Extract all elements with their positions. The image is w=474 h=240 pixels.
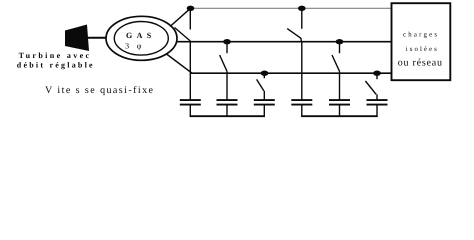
switch S1 bbox=[175, 8, 191, 41]
wire column C6 bbox=[376, 94, 378, 99]
node J2 bbox=[298, 6, 306, 11]
capacitor C4 bbox=[291, 100, 312, 116]
capacitor C3 bbox=[254, 100, 275, 116]
node J1 bbox=[187, 6, 195, 11]
wire bus line2 bbox=[177, 41, 392, 43]
wire bus line1 bbox=[190, 7, 392, 9]
capacitor C2 bbox=[217, 100, 238, 116]
generator U1 outer bbox=[106, 16, 177, 60]
switch S2 bbox=[220, 42, 227, 72]
switch S5 bbox=[332, 42, 340, 72]
wire fan phase3 bbox=[167, 54, 193, 73]
node J4 bbox=[336, 39, 344, 44]
wire column C4 bbox=[301, 42, 303, 100]
svg-text:G A S: G A S bbox=[126, 31, 152, 40]
wire column C3 bbox=[263, 91, 265, 100]
load box bbox=[392, 3, 451, 80]
svg-text:Turbine avec: Turbine avec bbox=[19, 51, 90, 60]
svg-text:ou réseau: ou réseau bbox=[398, 57, 442, 68]
wire rail group1 bbox=[190, 115, 265, 117]
switch S6 bbox=[365, 73, 377, 94]
svg-text:V ite s se quasi-fixe: V ite s se quasi-fixe bbox=[45, 85, 154, 96]
svg-text:débit réglable: débit réglable bbox=[17, 60, 93, 69]
wire fan phase1 bbox=[170, 8, 191, 26]
generator U1 inner bbox=[114, 22, 168, 56]
switch S3 bbox=[257, 73, 265, 91]
wire rail group2 bbox=[301, 115, 378, 117]
node J5 bbox=[261, 71, 269, 76]
shaft wire bbox=[86, 37, 107, 39]
capacitor C6 bbox=[367, 100, 388, 116]
switch S4 bbox=[287, 8, 302, 41]
capacitor C1 bbox=[180, 100, 201, 116]
wire column C5 bbox=[339, 71, 341, 99]
svg-text:charges: charges bbox=[403, 32, 437, 39]
svg-text:3 φ: 3 φ bbox=[125, 42, 142, 51]
node J3 bbox=[223, 39, 231, 44]
turbine T1 bbox=[65, 25, 89, 52]
wire column C2 bbox=[226, 71, 228, 99]
svg-text:isolées: isolées bbox=[406, 46, 437, 53]
capacitor C5 bbox=[329, 100, 350, 116]
node J6 bbox=[373, 71, 381, 76]
wire bus line3 bbox=[191, 72, 392, 74]
wire column C1 bbox=[189, 41, 191, 100]
